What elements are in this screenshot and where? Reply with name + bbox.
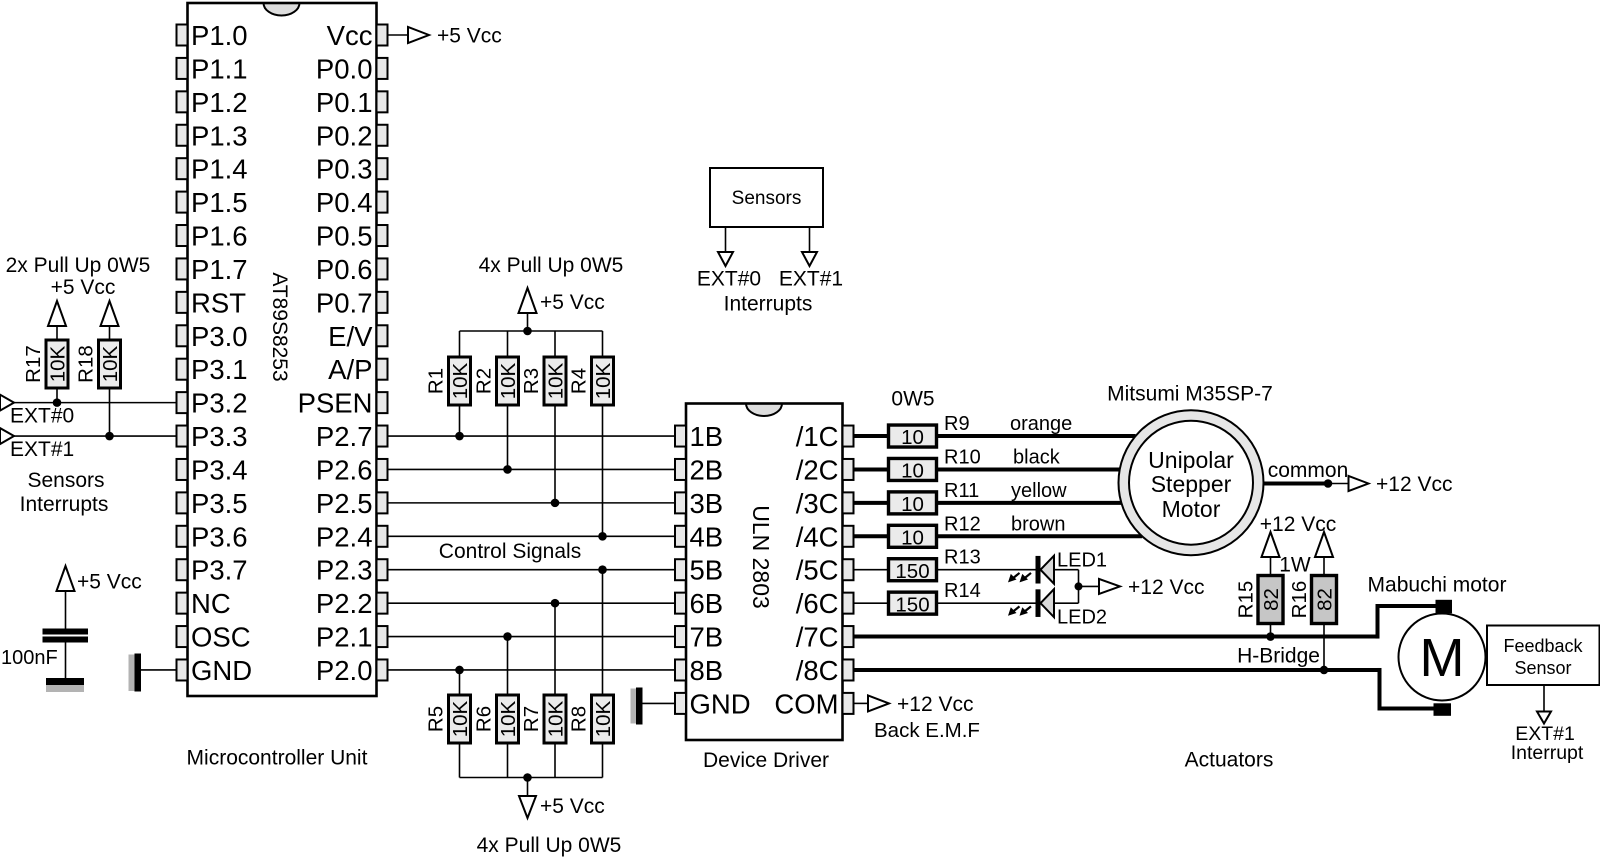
svg-text:1W: 1W: [1279, 554, 1311, 577]
svg-text:R7: R7: [520, 706, 543, 732]
svg-text:A/P: A/P: [328, 354, 372, 385]
svg-text:R14: R14: [944, 580, 981, 602]
svg-text:Mabuchi motor: Mabuchi motor: [1368, 574, 1507, 597]
svg-text:/4C: /4C: [796, 521, 839, 552]
svg-text:P0.0: P0.0: [316, 53, 373, 84]
svg-text:P0.1: P0.1: [316, 87, 373, 118]
svg-text:10K: 10K: [449, 362, 472, 399]
svg-text:+12 Vcc: +12 Vcc: [1260, 513, 1336, 536]
svg-text:P0.3: P0.3: [316, 154, 373, 185]
svg-text:EXT#0: EXT#0: [697, 268, 761, 291]
svg-text:150: 150: [895, 560, 929, 583]
svg-text:Actuators: Actuators: [1185, 749, 1274, 772]
svg-text:+12 Vcc: +12 Vcc: [897, 693, 973, 716]
svg-text:+12 Vcc: +12 Vcc: [1128, 576, 1204, 599]
svg-text:P1.5: P1.5: [191, 187, 248, 218]
svg-text:10K: 10K: [99, 345, 122, 382]
svg-text:10: 10: [901, 493, 924, 516]
svg-text:R15: R15: [1235, 581, 1258, 619]
svg-text:4B: 4B: [690, 521, 724, 552]
svg-text:P1.0: P1.0: [191, 20, 248, 51]
svg-text:10K: 10K: [545, 362, 568, 399]
svg-text:6B: 6B: [690, 588, 724, 619]
svg-text:EXT#1: EXT#1: [779, 268, 843, 291]
svg-text:yellow: yellow: [1011, 480, 1067, 502]
svg-text:RST: RST: [191, 287, 246, 318]
svg-text:R17: R17: [22, 345, 45, 383]
svg-text:LED1: LED1: [1057, 550, 1107, 572]
svg-text:R2: R2: [473, 368, 496, 394]
svg-text:10: 10: [901, 460, 924, 483]
svg-text:150: 150: [895, 593, 929, 616]
svg-text:+5 Vcc: +5 Vcc: [540, 291, 605, 314]
svg-text:7B: 7B: [690, 622, 724, 653]
svg-text:10K: 10K: [592, 700, 615, 737]
svg-text:P2.3: P2.3: [316, 555, 373, 586]
svg-text:ULN 2803: ULN 2803: [748, 505, 774, 609]
svg-text:GND: GND: [191, 655, 252, 686]
svg-text:P1.3: P1.3: [191, 120, 248, 151]
svg-text:P1.7: P1.7: [191, 254, 248, 285]
svg-text:10K: 10K: [497, 700, 520, 737]
svg-text:/2C: /2C: [796, 454, 839, 485]
svg-text:Feedback: Feedback: [1503, 636, 1583, 656]
svg-text:/3C: /3C: [796, 488, 839, 519]
svg-text:P2.0: P2.0: [316, 655, 373, 686]
svg-text:1B: 1B: [690, 421, 724, 452]
svg-text:Device Driver: Device Driver: [703, 749, 829, 772]
svg-text:4x Pull Up 0W5: 4x Pull Up 0W5: [477, 834, 622, 857]
svg-text:82: 82: [1314, 588, 1337, 611]
svg-text:AT89S8253: AT89S8253: [268, 272, 291, 381]
svg-text:100nF: 100nF: [1, 647, 58, 669]
svg-text:P3.7: P3.7: [191, 555, 248, 586]
svg-text:P1.4: P1.4: [191, 154, 248, 185]
svg-text:OSC: OSC: [191, 622, 251, 653]
svg-text:+12 Vcc: +12 Vcc: [1376, 473, 1452, 496]
svg-text:R16: R16: [1288, 581, 1311, 619]
svg-text:10K: 10K: [545, 700, 568, 737]
svg-text:P2.5: P2.5: [316, 488, 373, 519]
svg-text:Interrupt: Interrupt: [1511, 742, 1584, 764]
svg-text:4x Pull Up 0W5: 4x Pull Up 0W5: [479, 254, 624, 277]
svg-text:P3.2: P3.2: [191, 388, 248, 419]
svg-text:8B: 8B: [690, 655, 724, 686]
svg-text:COM: COM: [774, 688, 838, 719]
svg-text:P3.4: P3.4: [191, 454, 248, 485]
svg-text:P1.1: P1.1: [191, 53, 248, 84]
svg-text:Interrupts: Interrupts: [20, 493, 109, 516]
svg-text:+5 Vcc: +5 Vcc: [437, 25, 502, 48]
svg-text:brown: brown: [1011, 513, 1065, 535]
svg-text:2B: 2B: [690, 454, 724, 485]
svg-text:P0.2: P0.2: [316, 120, 373, 151]
svg-text:+5 Vcc: +5 Vcc: [540, 795, 605, 818]
svg-text:R18: R18: [75, 345, 98, 383]
svg-text:R4: R4: [568, 368, 591, 394]
svg-text:EXT#0: EXT#0: [10, 405, 74, 428]
svg-text:orange: orange: [1010, 413, 1072, 435]
svg-text:10: 10: [901, 426, 924, 449]
svg-text:P0.7: P0.7: [316, 287, 373, 318]
svg-text:Motor: Motor: [1162, 496, 1221, 522]
svg-text:P3.3: P3.3: [191, 421, 248, 452]
svg-text:R1: R1: [425, 368, 448, 394]
svg-text:0W5: 0W5: [891, 388, 934, 411]
svg-text:10K: 10K: [497, 362, 520, 399]
svg-text:/6C: /6C: [796, 588, 839, 619]
svg-text:Back E.M.F: Back E.M.F: [874, 719, 980, 742]
svg-text:R3: R3: [520, 368, 543, 394]
svg-text:P2.2: P2.2: [316, 588, 373, 619]
svg-text:Control Signals: Control Signals: [439, 540, 581, 563]
svg-text:Stepper: Stepper: [1151, 471, 1232, 497]
svg-text:P2.7: P2.7: [316, 421, 373, 452]
svg-text:10K: 10K: [449, 700, 472, 737]
svg-text:R9: R9: [944, 413, 970, 435]
svg-text:P0.4: P0.4: [316, 187, 373, 218]
svg-text:10K: 10K: [592, 362, 615, 399]
svg-text:E/V: E/V: [328, 321, 373, 352]
svg-text:10K: 10K: [47, 345, 70, 382]
svg-text:common: common: [1268, 459, 1349, 482]
svg-text:/5C: /5C: [796, 555, 839, 586]
svg-text:Vcc: Vcc: [327, 20, 373, 51]
svg-text:/1C: /1C: [796, 421, 839, 452]
svg-text:P3.5: P3.5: [191, 488, 248, 519]
svg-text:5B: 5B: [690, 555, 724, 586]
svg-text:R5: R5: [425, 706, 448, 732]
svg-text:R6: R6: [473, 706, 496, 732]
svg-text:10: 10: [901, 527, 924, 550]
svg-text:P3.0: P3.0: [191, 321, 248, 352]
svg-text:+5 Vcc: +5 Vcc: [77, 571, 142, 594]
svg-text:R13: R13: [944, 547, 981, 569]
svg-text:P3.1: P3.1: [191, 354, 248, 385]
svg-text:/8C: /8C: [796, 655, 839, 686]
svg-text:+5 Vcc: +5 Vcc: [51, 276, 116, 299]
svg-text:Microcontroller Unit: Microcontroller Unit: [187, 747, 368, 770]
svg-text:Interrupts: Interrupts: [724, 293, 813, 316]
svg-text:P0.6: P0.6: [316, 254, 373, 285]
svg-text:EXT#1: EXT#1: [10, 438, 74, 461]
svg-text:PSEN: PSEN: [298, 388, 373, 419]
svg-text:R12: R12: [944, 513, 981, 535]
svg-text:NC: NC: [191, 588, 231, 619]
svg-text:82: 82: [1260, 588, 1283, 611]
svg-text:H-Bridge: H-Bridge: [1237, 645, 1320, 668]
svg-text:2x Pull Up 0W5: 2x Pull Up 0W5: [6, 254, 151, 277]
svg-text:Sensors: Sensors: [732, 188, 802, 209]
svg-text:R8: R8: [568, 706, 591, 732]
svg-text:M: M: [1420, 628, 1465, 688]
svg-text:Sensors: Sensors: [27, 469, 104, 492]
svg-text:black: black: [1013, 446, 1061, 468]
svg-text:Mitsumi M35SP-7: Mitsumi M35SP-7: [1107, 383, 1273, 406]
svg-text:Sensor: Sensor: [1514, 658, 1571, 678]
svg-text:LED2: LED2: [1057, 607, 1107, 629]
svg-text:P1.2: P1.2: [191, 87, 248, 118]
svg-text:P2.4: P2.4: [316, 521, 373, 552]
svg-text:Unipolar: Unipolar: [1148, 447, 1234, 473]
svg-text:P3.6: P3.6: [191, 521, 248, 552]
svg-text:P2.1: P2.1: [316, 622, 373, 653]
svg-text:3B: 3B: [690, 488, 724, 519]
svg-text:R11: R11: [944, 480, 979, 502]
svg-text:GND: GND: [690, 688, 751, 719]
svg-text:P2.6: P2.6: [316, 454, 373, 485]
svg-text:R10: R10: [944, 446, 981, 468]
svg-text:/7C: /7C: [796, 622, 839, 653]
svg-text:P0.5: P0.5: [316, 221, 373, 252]
svg-text:P1.6: P1.6: [191, 221, 248, 252]
